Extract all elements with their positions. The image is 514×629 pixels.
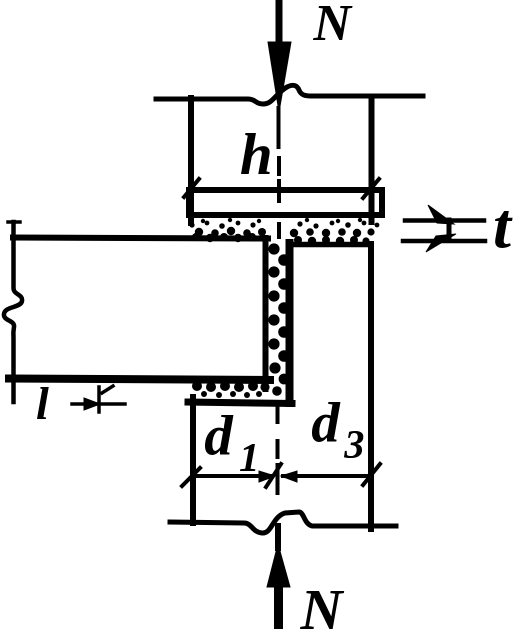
dimension line d1 [182, 464, 281, 487]
lower left wall top edge [188, 402, 292, 404]
tick plate top-left [184, 179, 199, 197]
break line bottom [170, 512, 396, 533]
beam left edge with break [4, 222, 22, 402]
upper wall left edge [188, 98, 194, 223]
bearing pad plate [189, 190, 382, 215]
label d3 [312, 402, 340, 442]
lower left wall left edge [190, 397, 196, 523]
thickness t extension line lower [403, 239, 485, 244]
label h [241, 133, 270, 174]
mortar stipple under plate [189, 218, 379, 245]
bearing arrow bottom left [72, 386, 125, 412]
label N bottom [300, 591, 344, 629]
upper wall right edge [369, 99, 375, 222]
thickness t extension line upper [405, 218, 484, 223]
lower wall inner edge (right of joint) [286, 243, 294, 403]
beam right end edge [263, 238, 269, 389]
label N top [313, 6, 353, 40]
lower right wall right edge [368, 244, 374, 529]
label l bottom left [37, 387, 49, 419]
label t right [495, 211, 513, 248]
dimension line d3 [281, 464, 380, 485]
label d1 [205, 415, 233, 455]
force arrow N bottom [267, 526, 290, 628]
thickness t arrows [426, 205, 456, 252]
beam bottom edge [9, 379, 270, 381]
centerline upper dashes [277, 108, 282, 237]
beam left edge top tick [8, 220, 20, 224]
centerline lower dashes [276, 406, 280, 493]
force arrow N top [268, 2, 291, 112]
break line top [156, 85, 423, 104]
mortar stipple under beam [192, 381, 270, 398]
tick plate top-right [363, 179, 379, 198]
lower right wall top edge [289, 242, 371, 248]
vertical mortar joint stipple [268, 243, 289, 395]
beam top edge [13, 238, 268, 239]
